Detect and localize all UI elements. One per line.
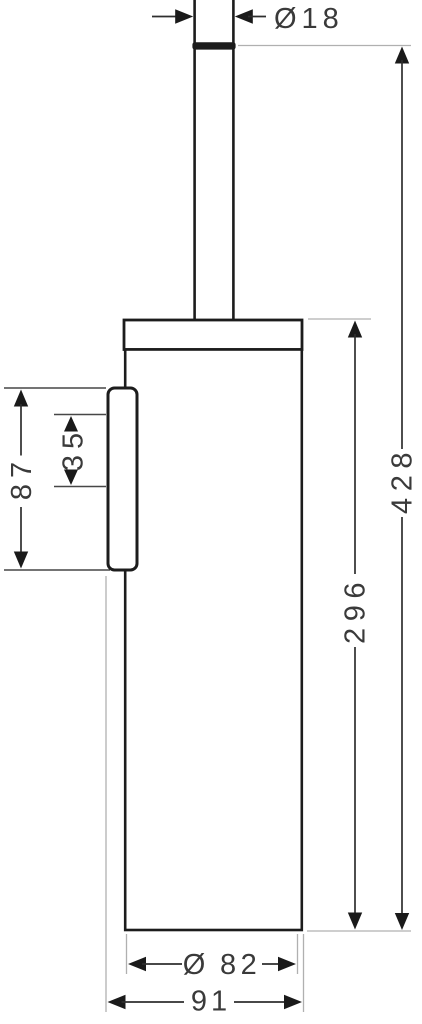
svg-text:87: 87 <box>6 456 38 500</box>
extension line 296 top <box>308 318 371 320</box>
dimension 91 line and arrows <box>108 995 303 1010</box>
svg-text:428: 428 <box>387 446 419 514</box>
handle rod right edge (extends up as extension line) <box>232 0 235 321</box>
dimension Ø82 line and arrows <box>128 957 296 972</box>
handle top cap <box>192 42 235 49</box>
wall bracket <box>108 388 137 570</box>
dimension Ø18 right arrow <box>235 9 266 24</box>
dimension 87 line and arrows <box>14 390 28 569</box>
extension line Ø82 left <box>126 934 128 974</box>
dimension Ø18 left arrow <box>152 9 193 24</box>
extension line 428/296 bottom <box>307 930 411 932</box>
dimension 296 line and arrows <box>348 321 362 930</box>
svg-text:35: 35 <box>58 427 90 471</box>
dimension 35 arrows <box>64 416 78 485</box>
extension line 35 top <box>54 414 106 416</box>
extension line 91 right <box>303 934 305 1012</box>
extension line 35 bottom <box>54 486 106 488</box>
handle rod left edge (extends up as extension line) <box>193 0 196 321</box>
svg-text:Ø18: Ø18 <box>274 3 344 35</box>
extension line 91 left <box>105 576 107 1012</box>
extension line 87 bottom <box>4 569 110 571</box>
svg-text:Ø 82: Ø 82 <box>183 949 262 981</box>
lid (top rim of container) <box>124 320 302 350</box>
svg-text:296: 296 <box>340 576 372 644</box>
svg-text:91: 91 <box>191 986 231 1018</box>
dimension 428 line and arrows <box>395 47 409 931</box>
container body <box>125 350 302 931</box>
extension line 428 top <box>238 45 411 47</box>
extension line Ø82 right <box>297 934 299 974</box>
extension line 87 top <box>4 387 106 389</box>
